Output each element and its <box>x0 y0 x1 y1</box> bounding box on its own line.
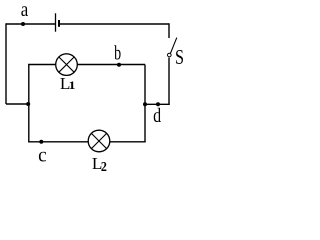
wire inner-left vertical <box>28 65 30 142</box>
svg-text:2: 2 <box>101 160 107 175</box>
label L2 <box>92 154 107 175</box>
svg-text:a: a <box>21 0 29 21</box>
svg-text:b: b <box>114 43 121 65</box>
wire bottom branch left (to L2) <box>28 141 88 143</box>
node b <box>117 63 121 67</box>
wire d connector <box>145 103 170 105</box>
lamp L1 <box>56 54 78 76</box>
svg-text:S: S <box>175 45 184 69</box>
svg-text:1: 1 <box>69 80 76 92</box>
wire top branch right (L1 to corner) <box>78 64 146 66</box>
node d <box>156 102 160 106</box>
junction left <box>26 102 30 106</box>
wire right vertical lower (switch to d) <box>168 58 170 106</box>
svg-text:d: d <box>153 105 161 127</box>
wire top branch left (to L1) <box>28 64 56 66</box>
wire top-left (a to battery) <box>6 23 55 25</box>
label L1 <box>60 74 76 93</box>
lamp L2 <box>88 130 110 152</box>
wire right vertical upper (to switch) <box>168 23 170 38</box>
wire bottom branch right (L2 to corner) <box>110 141 146 143</box>
wire left vertical <box>5 23 7 104</box>
battery cell <box>56 13 60 31</box>
node a <box>21 22 25 26</box>
svg-text:c: c <box>38 144 47 166</box>
switch S <box>168 38 177 57</box>
wire top-right (battery to right corner) <box>60 23 169 25</box>
wire inner-right vertical <box>144 65 146 142</box>
node c <box>39 140 43 144</box>
junction at d branch <box>143 102 147 106</box>
wire left connector <box>6 103 29 105</box>
